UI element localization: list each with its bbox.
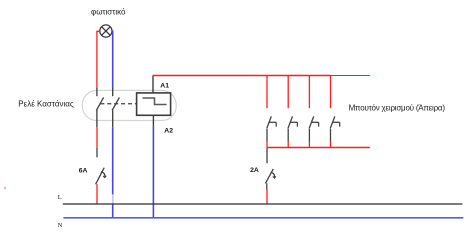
wire: lamp left to relay pole1 top (red, phase) bbox=[97, 31, 100, 88]
relay contact pole 2 bbox=[112, 88, 119, 127]
svg-text:Ρελέ Καστάνιας: Ρελέ Καστάνιας bbox=[18, 100, 74, 109]
svg-text:Μπουτόν χειρισμού (Άπειρα): Μπουτόν χειρισμού (Άπειρα) bbox=[349, 104, 446, 113]
wire: button return bus (red) bbox=[267, 147, 370, 149]
relay enclosure (rounded outline) bbox=[82, 90, 176, 120]
wire: A2 to neutral bus (blue) bbox=[152, 126, 154, 218]
svg-text:φωτιστικό: φωτιστικό bbox=[91, 8, 126, 17]
wire: button drop 1 (red) bbox=[266, 76, 268, 109]
push button S3 bbox=[309, 116, 319, 141]
push button S1 bbox=[267, 116, 277, 141]
wire: pole2 bottom to neutral bus (blue, upper) bbox=[112, 127, 114, 194]
mechanical link (dashed) to coil bbox=[100, 103, 136, 105]
wire: button drop 4 (red) bbox=[330, 76, 332, 109]
svg-text:2A: 2A bbox=[250, 167, 259, 174]
relay coil K1 (latching) bbox=[137, 93, 171, 115]
wire: coil terminal A2 down (dark) bbox=[152, 115, 154, 126]
svg-text:6A: 6A bbox=[79, 167, 88, 174]
lamp E1 (φωτιστικό) bbox=[100, 25, 112, 37]
wire: S3 to bus (red tip) bbox=[308, 142, 310, 148]
wire: button drop 2 (red) bbox=[287, 76, 289, 109]
wire: breaker 6A to L (red) bbox=[96, 184, 98, 204]
stray red mark bbox=[4, 187, 6, 189]
wire: breaker 2A to L (red) bbox=[266, 190, 268, 205]
wire: top feed spare extension (red, thinner) bbox=[331, 75, 370, 77]
wire: S4 to bus (red tip) bbox=[330, 142, 332, 148]
breaker F2 2A bbox=[265, 148, 276, 190]
latching step symbol bbox=[143, 98, 167, 105]
wire: top feed line from A1 to button 4 (red) bbox=[153, 75, 331, 77]
wire: button drop 3 (red) bbox=[308, 76, 310, 109]
net N (neutral line) bbox=[63, 217, 463, 219]
svg-text:A2: A2 bbox=[164, 127, 173, 134]
net L (phase line) bbox=[63, 203, 463, 205]
wire: S1 to bus (red tip) bbox=[266, 142, 268, 148]
svg-text:A1: A1 bbox=[160, 82, 169, 89]
svg-text:N: N bbox=[58, 222, 63, 229]
wire: relay pole1 bottom to breaker 6A (red) bbox=[96, 127, 98, 148]
wire: lamp right to relay pole2 top (blue) bbox=[111, 31, 114, 88]
push button S4 bbox=[330, 116, 340, 141]
wire: faint thin section above L bbox=[112, 194, 114, 203]
svg-text:L: L bbox=[58, 194, 62, 201]
relay contact pole 1 bbox=[96, 88, 103, 127]
wire: coil terminal A1 up bbox=[152, 76, 154, 94]
push button S2 bbox=[288, 116, 298, 141]
wire: S2 to bus (red tip) bbox=[287, 142, 289, 148]
breaker F1 6A bbox=[96, 148, 107, 185]
wire: pole2 to neutral bus (blue, lower) bbox=[112, 204, 114, 218]
